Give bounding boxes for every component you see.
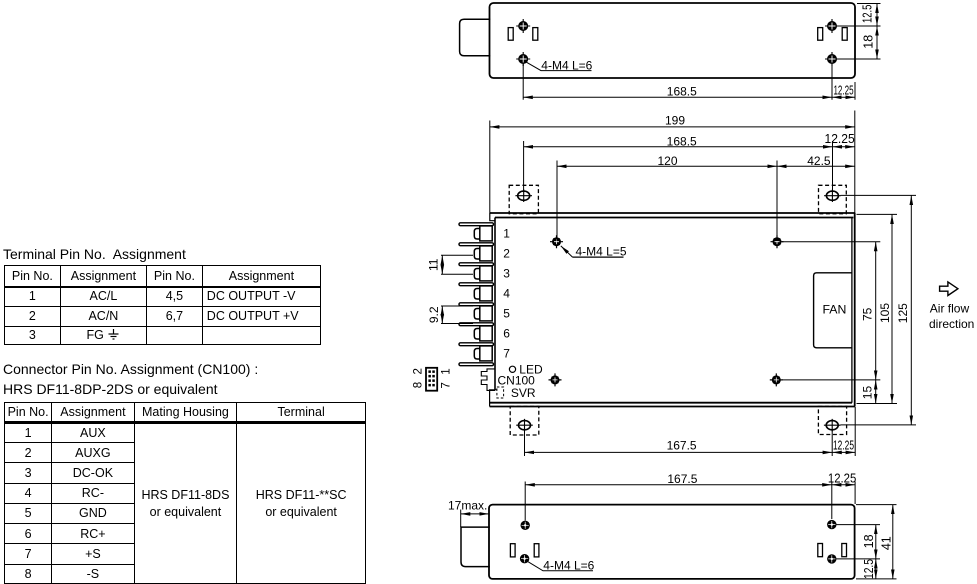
svg-text:42.5: 42.5 — [807, 154, 831, 168]
top view slot left-pair-left — [508, 28, 513, 41]
dim line 12.25 top — [833, 146, 855, 148]
svg-text:12.25: 12.25 — [833, 82, 853, 97]
bottom view hole BR — [827, 554, 836, 563]
table 1: terminal pin assignment — [4, 265, 321, 345]
svg-text:168.5: 168.5 — [667, 84, 697, 98]
svg-text:167.5: 167.5 — [667, 439, 697, 453]
bottom view leader 4-M4 L=6 — [528, 562, 593, 571]
top view extension lines bottom — [523, 64, 855, 100]
middle top extension lines — [490, 111, 855, 242]
svg-text:15: 15 — [860, 386, 874, 400]
bottom view body outline — [489, 505, 855, 579]
body left lip step — [490, 213, 495, 221]
svg-text:FAN: FAN — [822, 303, 846, 317]
top view extension lines right — [838, 4, 881, 60]
top view dim line 12.25 — [832, 96, 855, 98]
flange hole bottom-right — [824, 419, 841, 432]
top view body outline — [490, 3, 856, 78]
dim line 18 bottom — [875, 525, 877, 559]
bottom view hole TL — [521, 521, 530, 530]
table 2: connector pin assignment CN100 — [4, 402, 366, 584]
svg-text:12.25: 12.25 — [825, 132, 855, 146]
middle bottom extension lines — [525, 407, 856, 456]
top view dim line 18 right — [876, 26, 878, 59]
CN100 connector icon — [426, 368, 437, 391]
dim line 12.25 bottom — [832, 484, 855, 486]
svg-text:18: 18 — [862, 534, 876, 548]
svg-text:125: 125 — [896, 303, 910, 323]
body bottom-left step — [490, 390, 497, 407]
svg-text:Air flow: Air flow — [930, 301, 970, 315]
svg-text:2: 2 — [412, 368, 424, 374]
flange hole bottom-left — [516, 419, 533, 432]
body bottom inner line — [490, 402, 852, 404]
svg-text:75: 75 — [861, 307, 875, 321]
svg-text:SVR: SVR — [511, 386, 536, 400]
svg-text:6: 6 — [503, 326, 510, 340]
LED indicator — [509, 366, 515, 372]
top view dim line 168.5 — [523, 96, 832, 98]
dim line 167.5 middle — [525, 451, 833, 453]
svg-text:1: 1 — [440, 368, 452, 374]
svg-text:12.5: 12.5 — [860, 5, 874, 24]
top view leader 4-M4 L=6 — [526, 62, 591, 70]
svg-text:4-M4 L=6: 4-M4 L=6 — [543, 559, 594, 573]
dim line 42.5 — [777, 165, 855, 167]
internal mounting hole bottom-right — [770, 373, 783, 386]
svg-text:168.5: 168.5 — [667, 134, 697, 148]
top view mounting hole TL — [516, 19, 530, 33]
flange dashed square bottom-left — [510, 406, 539, 435]
body bottom outer line — [490, 406, 856, 408]
body right wall inner — [851, 218, 853, 403]
table 1 title — [3, 246, 186, 262]
dim 11 terminals — [441, 255, 473, 274]
bottom view slots — [510, 544, 846, 557]
flange hole top-right — [824, 189, 841, 202]
table 2 title line 2 — [3, 381, 218, 397]
internal mounting hole top-right — [771, 235, 784, 248]
svg-text:9.2: 9.2 — [427, 306, 441, 323]
body flange top line — [490, 212, 855, 214]
svg-text:18: 18 — [862, 35, 876, 49]
svg-text:12.5: 12.5 — [862, 559, 876, 579]
svg-text:199: 199 — [665, 113, 685, 127]
svg-text:8: 8 — [412, 382, 424, 388]
dim line 199 — [490, 126, 855, 128]
svg-text:17max.: 17max. — [448, 499, 487, 513]
SVR dashed box — [497, 387, 504, 398]
dim 9.2 terminals — [441, 306, 473, 324]
svg-text:4: 4 — [503, 286, 510, 300]
svg-text:7: 7 — [503, 346, 510, 360]
terminal numbers 1-7 — [503, 226, 510, 360]
svg-text:105: 105 — [878, 303, 892, 323]
middle right extension lines — [782, 195, 916, 425]
svg-text:12.25: 12.25 — [833, 437, 854, 452]
body cover top line — [495, 217, 853, 219]
dim line 167.5 bottom — [525, 484, 832, 486]
dim line 120 — [557, 165, 777, 167]
svg-text:167.5: 167.5 — [667, 472, 697, 486]
svg-text:11: 11 — [426, 258, 440, 271]
top view slot right-pair-right — [842, 28, 847, 41]
flange dashed square top-right — [819, 185, 847, 213]
svg-text:1: 1 — [503, 226, 510, 240]
bottom view hole TR — [827, 520, 836, 529]
svg-text:3: 3 — [503, 266, 510, 280]
svg-text:41: 41 — [880, 536, 894, 550]
top view mounting hole BL — [516, 52, 530, 66]
bottom view top dims — [461, 482, 855, 528]
terminal screws — [474, 226, 492, 361]
FAN box — [814, 273, 852, 348]
leader 4-M4 L=5 — [561, 246, 573, 257]
internal mounting hole top-left — [550, 235, 563, 248]
dim line 105 — [891, 214, 893, 403]
svg-text:2: 2 — [503, 246, 510, 260]
flange hole top-left — [515, 189, 532, 202]
bottom view hole BL — [520, 554, 529, 563]
terminal block separator bars — [459, 223, 494, 366]
dim line 75 — [875, 242, 877, 380]
dim line 12.25 middle bottom — [832, 451, 855, 453]
dim line 15 — [875, 380, 877, 404]
top view mounting hole BR — [825, 52, 839, 66]
top view slot left-pair-right — [533, 28, 538, 41]
CN100 connector outline on case wall — [481, 369, 495, 391]
air flow arrow — [940, 282, 958, 296]
internal mounting hole bottom-left — [549, 373, 562, 386]
svg-text:direction: direction — [929, 317, 974, 331]
table 2 title line 1 — [3, 361, 258, 377]
dim line 12.5 bottom — [875, 559, 877, 579]
svg-text:4-M4 L=5: 4-M4 L=5 — [576, 244, 627, 258]
flange dashed square bottom-right — [818, 406, 846, 434]
svg-text:7: 7 — [440, 382, 452, 388]
body right wall outer — [854, 213, 856, 407]
top view slot right-pair-left — [818, 28, 823, 41]
dim line 125 — [910, 195, 912, 425]
dim line 17max — [461, 513, 489, 515]
dim line 168.5 — [524, 146, 833, 148]
svg-text:120: 120 — [657, 154, 677, 168]
bottom view left tab — [461, 527, 490, 567]
svg-text:5: 5 — [503, 306, 510, 320]
svg-text:4-M4 L=6: 4-M4 L=6 — [541, 59, 592, 73]
top view dim line 12.5 right — [876, 4, 878, 27]
body left wall — [494, 218, 496, 390]
dim line 41 — [892, 505, 894, 579]
top view left tab — [460, 19, 491, 56]
top view mounting hole TR — [825, 19, 839, 33]
flange dashed square top-left — [509, 185, 538, 213]
bottom view right dims — [837, 505, 897, 579]
svg-text:12.25: 12.25 — [828, 471, 856, 485]
